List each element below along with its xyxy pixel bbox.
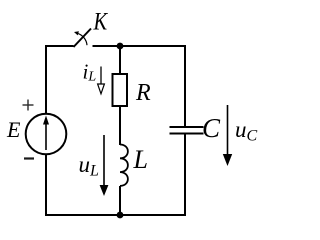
wire: right vertical lower	[184, 134, 186, 217]
capacitor C	[170, 127, 204, 134]
resistor R	[113, 74, 128, 106]
wire: inductor to bottom rail	[119, 186, 121, 215]
wire: top rail right segment + right vertical upper	[93, 46, 186, 127]
inductor L	[120, 145, 128, 186]
source E circle	[26, 114, 67, 155]
wire: left vertical lower	[45, 155, 47, 216]
svg-text:C: C	[202, 113, 221, 143]
voltage arrow uC	[223, 105, 232, 166]
node: top junction	[117, 43, 124, 50]
voltage arrow uL	[100, 135, 109, 196]
wire: left vertical upper + top rail left segment	[46, 46, 74, 113]
svg-text:L: L	[133, 145, 148, 174]
wire: bottom rail	[45, 214, 185, 216]
label - (source negative)	[24, 157, 34, 159]
wire: resistor to inductor	[119, 106, 121, 145]
switch K motion arrow	[74, 31, 87, 45]
svg-text:R: R	[135, 80, 151, 106]
svg-text:K: K	[93, 8, 109, 35]
current arrow iL	[98, 67, 105, 94]
switch K blade	[74, 29, 92, 48]
node: bottom junction	[117, 212, 124, 219]
source E internal arrow	[43, 116, 49, 151]
wire: middle branch top	[119, 46, 121, 75]
label + (source positive)	[23, 100, 34, 111]
svg-text:E: E	[6, 117, 21, 142]
